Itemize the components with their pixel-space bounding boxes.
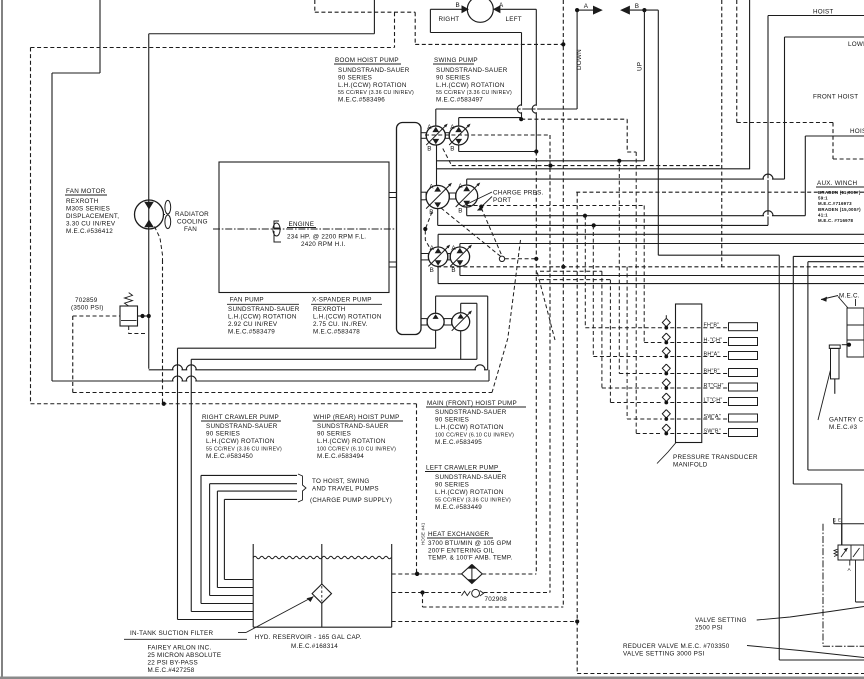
gantry cylinder body	[831, 348, 840, 379]
transducer connector box 6	[729, 398, 758, 406]
wire dashed transducer row 4	[619, 373, 662, 375]
svg-text:234 HP. @ 2200 RPM F.L.: 234 HP. @ 2200 RPM F.L.	[287, 234, 366, 241]
wire hoist vertical x768	[767, 16, 769, 226]
svg-text:25 MICRON ABSOLUTE: 25 MICRON ABSOLUTE	[148, 652, 222, 659]
wire dashed transducer row 2	[644, 342, 662, 344]
pilot valve inner 1	[847, 324, 864, 326]
border bottom scan edge	[0, 677, 864, 679]
svg-text:22 PSI BY-PASS: 22 PSI BY-PASS	[148, 659, 198, 666]
engine crank symbol 2	[274, 231, 281, 242]
wire dashed box y205	[467, 205, 644, 207]
pump main hoist P3 variable arrow	[426, 184, 451, 209]
svg-text:M.E.C.#3: M.E.C.#3	[829, 424, 857, 431]
wire dashed vertical x722	[721, 0, 723, 267]
transducer connector box 8	[729, 429, 758, 437]
wire bundle bottom 5	[217, 587, 253, 589]
hop x521 y109	[517, 105, 521, 113]
wire bundle bottom 1	[178, 619, 254, 621]
svg-text:A: A	[499, 2, 504, 9]
wire fan motor case drain curve	[155, 227, 163, 261]
pressure transducer manifold body	[676, 304, 702, 443]
stub whip B	[466, 207, 468, 216]
pump swing P2 variable arrow	[449, 125, 469, 145]
pump swing P2 port-A arrow	[455, 127, 462, 132]
svg-text:A: A	[427, 124, 432, 131]
svg-text:B: B	[427, 145, 431, 152]
wire dashed y192	[576, 191, 864, 193]
wire lcrawler B line y275	[460, 275, 864, 277]
svg-text:UP: UP	[637, 62, 644, 71]
wire xspander A up	[460, 303, 462, 313]
transducer node 5	[664, 386, 668, 390]
wire dashed bottom y673	[577, 673, 864, 675]
pump main hoist P3 port-A arrow	[434, 186, 441, 191]
arrow B left	[620, 6, 630, 15]
wire lower vertical x784	[784, 37, 786, 179]
svg-text:A: A	[430, 245, 435, 252]
underline engine	[287, 227, 316, 229]
hop y370 x480	[475, 365, 485, 370]
wire dashed drain chain	[425, 212, 432, 250]
svg-text:BOOM HOIST PUMP: BOOM HOIST PUMP	[335, 57, 399, 64]
wire dashed transducer to box 5	[670, 387, 728, 389]
pump swing P2 variable arrowhead	[467, 124, 471, 128]
wire dashed transducer row 3	[593, 356, 662, 358]
svg-text:BRADEN (15,000#): BRADEN (15,000#)	[818, 207, 861, 212]
svg-text:90 SERIES: 90 SERIES	[206, 431, 240, 438]
hop y381 x191 mask	[187, 380, 195, 382]
svg-text:L.H.(CCW) ROTATION: L.H.(CCW) ROTATION	[338, 82, 407, 89]
leader reducer valve	[747, 646, 864, 658]
leader charge arrowhead	[478, 206, 483, 211]
wire dashed drain diag p1	[443, 149, 452, 166]
wire dashed transducer vertical 7	[626, 267, 628, 419]
svg-text:702859: 702859	[75, 297, 98, 304]
wire bundle bottom 3	[201, 603, 253, 605]
transducer node 3	[664, 355, 668, 359]
wire dashed hx right	[482, 573, 536, 575]
pump drive gearbox	[397, 123, 422, 335]
svg-text:M.E.C.#583494: M.E.C.#583494	[317, 453, 364, 460]
junction pilot valve	[847, 343, 851, 347]
pump boom hoist P1 variable arrow	[426, 125, 446, 145]
junction y161 x619	[617, 159, 621, 163]
wire top vertical x374	[373, 0, 375, 34]
wire dashed top horizontal y47	[31, 47, 395, 49]
svg-text:REXROTH: REXROTH	[313, 306, 346, 313]
stub swingpump A	[458, 118, 460, 127]
check valve arrowhead	[480, 591, 484, 596]
transducer check diamond 6	[662, 393, 670, 401]
valve box outer left	[792, 256, 794, 484]
svg-text:LT"CH": LT"CH"	[704, 398, 723, 404]
wire dashed vertical x737	[736, 0, 738, 123]
valve box outer bottom	[793, 483, 841, 485]
svg-text:SUNDSTRAND-SAUER: SUNDSTRAND-SAUER	[228, 306, 300, 313]
svg-text:PRESSURE TRANSDUCER: PRESSURE TRANSDUCER	[673, 454, 758, 461]
wire dashed fan drain vertical x162	[162, 260, 164, 404]
wire dashed box y135	[425, 134, 550, 136]
wire bottom exit y660	[779, 659, 864, 661]
stub rcrawler A	[437, 234, 439, 247]
underline aux winch	[816, 186, 864, 188]
svg-text:90 SERIES: 90 SERIES	[435, 482, 469, 489]
engine block box	[219, 162, 389, 293]
wire bundle top 4	[224, 498, 297, 500]
svg-text:A: A	[429, 184, 434, 191]
svg-text:TO HOIST, SWING: TO HOIST, SWING	[312, 478, 370, 485]
leader mec arrowhead	[821, 297, 827, 302]
svg-text:2500 PSI: 2500 PSI	[695, 625, 723, 632]
pilot valve block	[847, 308, 864, 357]
filter suction diamond	[312, 584, 331, 603]
pump boom hoist P1 port-B arrow	[432, 139, 439, 144]
leader charge 1	[462, 192, 492, 207]
svg-text:3.30 CU IN/REV: 3.30 CU IN/REV	[66, 221, 116, 228]
transducer connector box 7	[729, 414, 758, 422]
wire left border vertical	[1, 0, 3, 679]
pump swing P2	[449, 126, 468, 145]
gearbox stub pair1	[421, 133, 426, 139]
junction relief b	[147, 314, 151, 318]
svg-text:M.E.C.#583478: M.E.C.#583478	[313, 329, 360, 336]
svg-text:M.E.C.#583450: M.E.C.#583450	[206, 453, 253, 460]
shaft stub pair3	[448, 254, 450, 260]
wire dashed y122	[737, 122, 833, 124]
fan propeller blade top	[165, 200, 171, 214]
svg-text:59:1: 59:1	[818, 196, 828, 201]
pump fan P7	[427, 313, 444, 330]
transducer connector box 3	[729, 352, 758, 360]
wire hoist2 exit y136	[805, 135, 864, 137]
wire dashed drain h y259	[505, 258, 537, 260]
svg-text:REDUCER VALVE M.E.C. #703350: REDUCER VALVE M.E.C. #703350	[623, 643, 730, 650]
svg-text:M30S SERIES: M30S SERIES	[66, 206, 110, 213]
svg-text:VALVE SETTING 3000 PSI: VALVE SETTING 3000 PSI	[623, 651, 705, 658]
pump right crawler P5 variable arrow	[428, 246, 449, 267]
fan shaft	[164, 214, 166, 216]
wire hoist arrow A line	[577, 9, 593, 11]
hop x536 y109	[532, 105, 536, 113]
svg-text:100 CC/REV (6.10 CU IN/REV): 100 CC/REV (6.10 CU IN/REV)	[317, 446, 396, 452]
pump x-spander P8 variable arrow	[452, 312, 471, 331]
gearbox stub pair2	[421, 192, 426, 200]
underline heat exchanger	[427, 537, 493, 539]
wire dashed x422	[422, 593, 424, 608]
pump main hoist P3	[426, 185, 449, 208]
underline left crawler	[425, 471, 501, 473]
wire dashed drain y166	[452, 165, 722, 167]
wire dashed transducer row 8	[636, 433, 662, 435]
junction drain x425	[423, 227, 427, 231]
solenoid stub A	[849, 560, 851, 566]
underline whip	[313, 420, 404, 422]
check valve marks	[462, 591, 471, 595]
wire dashed left vertical x30	[30, 48, 32, 404]
junction y166 x550	[548, 164, 552, 168]
gearbox stub pair3	[421, 254, 428, 260]
svg-text:200'F ENTERING OIL: 200'F ENTERING OIL	[428, 547, 494, 554]
gearbox stub pair4	[421, 319, 427, 325]
underline x-spander	[311, 303, 382, 305]
svg-text:2.92 CU IN/REV: 2.92 CU IN/REV	[228, 321, 278, 328]
pump swing P2 port-B arrow	[455, 139, 462, 144]
wire dashed top vertical x315	[314, 0, 316, 12]
transducer check diamond 3	[662, 347, 670, 355]
svg-text:FAIREY ARLON INC.: FAIREY ARLON INC.	[148, 645, 212, 652]
wire bundle bottom 2	[191, 611, 253, 613]
svg-text:SUNDSTRAND-SAUER: SUNDSTRAND-SAUER	[206, 423, 278, 430]
wire bundle bottom 6	[224, 579, 253, 581]
reservoir right wall	[391, 544, 393, 627]
hop y370 x191	[186, 365, 196, 370]
wire swing loop vertical x521	[521, 33, 523, 120]
relief valve 702859 body	[120, 306, 138, 326]
wire swing motor left	[430, 8, 461, 10]
solenoid valve arrow	[841, 548, 848, 557]
transducer connector box 5	[729, 383, 758, 391]
hop y216 x768 mask	[764, 215, 772, 217]
svg-text:M.E.C.#536412: M.E.C.#536412	[66, 228, 113, 235]
svg-text:M.E.C. #716978: M.E.C. #716978	[818, 218, 854, 223]
wire boom B line y161	[437, 160, 645, 162]
svg-text:B: B	[451, 267, 455, 274]
hop y370 x480 mask	[476, 369, 484, 371]
junction dashed y44 x563	[561, 42, 565, 46]
motor swing M1	[467, 0, 493, 22]
wire swing motor right	[500, 8, 536, 10]
pump x-spander P8	[452, 313, 470, 331]
svg-text:RIGHT: RIGHT	[439, 16, 460, 23]
svg-text:L.H.(CCW) ROTATION: L.H.(CCW) ROTATION	[313, 314, 382, 321]
svg-text:100 CC/REV (6.10 CU IN/REV): 100 CC/REV (6.10 CU IN/REV)	[435, 432, 514, 438]
transducer node 6	[664, 401, 668, 405]
svg-text:B: B	[458, 207, 462, 214]
svg-text:M.E.C.#583479: M.E.C.#583479	[228, 329, 275, 336]
arrow swing port A	[493, 5, 501, 13]
svg-text:SUNDSTRAND-SAUER: SUNDSTRAND-SAUER	[435, 474, 507, 481]
transducer top tick	[665, 315, 667, 318]
pump whip hoist P4	[456, 185, 478, 207]
junction y267 x563	[561, 265, 565, 269]
wire bundle top 2	[210, 483, 297, 485]
wire fanpump B down	[435, 330, 437, 348]
wire mainhoist B line y225	[438, 224, 768, 226]
transducer connector box 4	[729, 369, 758, 377]
wire left vertical x52	[51, 73, 53, 381]
wire fan-return vertical x149	[148, 34, 150, 369]
wire dashed transducer vertical 2	[643, 206, 645, 343]
reservoir oil level wavy line	[253, 556, 391, 559]
svg-text:702908: 702908	[485, 596, 508, 603]
wire top-left vertical x100	[99, 0, 101, 73]
gantry cylinder rod	[834, 379, 836, 394]
pump x-spander P8 variable arrowhead	[468, 311, 472, 315]
leader filter tail	[238, 632, 246, 634]
wire swing return vertical x536	[535, 9, 537, 151]
wire UP vertical x644	[643, 10, 645, 161]
wire dashed top horizontal y12	[315, 11, 415, 13]
pump whip hoist P4 variable arrowhead	[476, 182, 480, 186]
junction y404 x164	[162, 402, 166, 406]
wire y370 line	[149, 369, 488, 371]
stub lcrawler A	[459, 244, 461, 248]
svg-text:X-SPANDER PUMP: X-SPANDER PUMP	[312, 297, 372, 304]
wire y348 line	[178, 347, 436, 349]
svg-text:FH"B": FH"B"	[704, 323, 720, 329]
relief valve spring	[125, 293, 133, 306]
svg-text:ENGINE: ENGINE	[289, 221, 315, 228]
svg-text:A: A	[458, 183, 463, 190]
solenoid valve body	[838, 545, 864, 560]
wire dashed vertical x394	[394, 12, 396, 47]
valve box inner bottom	[808, 469, 864, 471]
wire swing loop bottom y32	[430, 32, 521, 34]
wire hoist2 vertical x805	[804, 136, 806, 216]
svg-text:2420 RPM H.I.: 2420 RPM H.I.	[301, 241, 346, 248]
hop x536 y109 mask	[535, 106, 537, 112]
wire hoist arrow B line	[630, 9, 658, 11]
wire dashed relief left	[73, 315, 120, 317]
wire rcrawler A line y234	[438, 233, 864, 235]
wire dashed exit y159	[833, 158, 864, 160]
wire y524	[834, 523, 864, 525]
wire x834 short	[833, 518, 835, 524]
svg-text:C E: C E	[833, 518, 841, 523]
svg-text:SUNDSTRAND-SAUER: SUNDSTRAND-SAUER	[317, 423, 389, 430]
pump whip hoist P4 port-A arrow	[463, 186, 470, 191]
svg-text:90 SERIES: 90 SERIES	[317, 431, 351, 438]
wire boom-to-mainhoist vertical	[436, 145, 438, 186]
pump main hoist P3 port-B arrow	[434, 202, 441, 207]
svg-text:TEMP. & 100'F AMB. TEMP.: TEMP. & 100'F AMB. TEMP.	[428, 555, 513, 562]
wire dashed transducer vertical 8	[635, 152, 637, 434]
underline fan motor	[65, 194, 107, 196]
wire top horizontal y34	[149, 33, 375, 35]
wire dashed transducer vertical 4	[618, 161, 620, 374]
wire swing loop left vertical	[429, 9, 431, 32]
wire fanpump loop top	[436, 295, 488, 297]
heat exchanger top arrow	[467, 564, 476, 568]
reservoir bottom	[253, 626, 392, 628]
wire dashed vertical x72	[72, 316, 74, 393]
svg-text:(CHARGE PUMP SUPPLY): (CHARGE PUMP SUPPLY)	[310, 497, 392, 504]
svg-text:HOSE #41: HOSE #41	[421, 522, 426, 545]
hop y370 x178	[173, 365, 183, 370]
svg-text:L.H.(CCW) ROTATION: L.H.(CCW) ROTATION	[435, 424, 504, 431]
transducer node 7	[664, 417, 668, 421]
transducer check diamond 5	[662, 379, 670, 387]
reservoir suction pipe bottom	[321, 603, 323, 627]
svg-text:M.E.C.#716973: M.E.C.#716973	[818, 201, 852, 206]
wire bundle vertical 1	[177, 348, 179, 619]
junction y151 x536	[534, 149, 538, 153]
junction x416 y574	[415, 572, 419, 576]
valve box inner top	[808, 261, 864, 263]
shaft stub pair2	[449, 193, 455, 199]
wire dashed transducer to box 8	[670, 433, 728, 435]
pump boom hoist P1	[426, 126, 445, 145]
leader transducer	[657, 443, 676, 464]
stub rcrawler B	[437, 266, 439, 283]
solenoid valve divider	[850, 545, 852, 560]
underline fan pump	[227, 303, 299, 305]
motor fan M2	[135, 200, 164, 229]
junction down-line top	[575, 8, 579, 12]
wire dashed transducer row 5	[602, 387, 662, 389]
wire bundle vertical 3	[200, 475, 202, 603]
pilot valve line	[842, 344, 849, 346]
solenoid right drop	[855, 560, 857, 602]
svg-text:L.H.(CCW) ROTATION: L.H.(CCW) ROTATION	[206, 438, 275, 445]
svg-text:SUNDSTRAND-SAUER: SUNDSTRAND-SAUER	[338, 67, 410, 74]
wire y359 line	[191, 358, 477, 360]
brace charge supply	[298, 474, 306, 502]
hop y370 x178 mask	[174, 369, 182, 371]
svg-text:HOIST: HOIST	[850, 128, 864, 135]
junction hx left	[415, 572, 419, 576]
pump right crawler P5 variable arrowhead	[446, 245, 450, 249]
wire dashed drain diag long	[492, 240, 521, 393]
wire fanpump A up	[435, 296, 437, 313]
pump x-spander P8 port-A arrow	[457, 314, 463, 319]
solenoid spring	[834, 549, 838, 557]
shaft stub pair1	[445, 133, 449, 139]
hop y179 x768 mask	[764, 178, 772, 180]
shaft stub pair4	[444, 319, 452, 325]
pump left crawler P6 variable arrow	[450, 246, 471, 267]
svg-text:MAIN (FRONT) HOIST PUMP: MAIN (FRONT) HOIST PUMP	[427, 400, 517, 407]
underline main hoist	[426, 406, 526, 408]
leader filter diag	[246, 597, 314, 633]
wire bundle bottom 4	[210, 595, 254, 597]
svg-text:FAN: FAN	[184, 226, 197, 233]
junction y216 x585	[583, 214, 587, 218]
wire dashed vertical x536 down	[535, 152, 537, 575]
wire xspander loop right vertical	[476, 303, 478, 359]
wire dashed vertical x577 down	[576, 192, 578, 673]
solenoid valve arrow2	[853, 548, 860, 557]
leader gantry	[818, 370, 831, 420]
svg-text:MANIFOLD: MANIFOLD	[673, 462, 708, 469]
arrow A right	[593, 6, 603, 15]
svg-text:L.H.(CCW) ROTATION: L.H.(CCW) ROTATION	[228, 314, 297, 321]
wire y255 line	[658, 254, 779, 256]
wire dashed horizontal y44	[415, 43, 563, 45]
svg-text:FRONT HOIST: FRONT HOIST	[813, 94, 858, 101]
wire fanpump loop right vertical	[487, 296, 489, 370]
stub whip A	[466, 179, 468, 185]
junction up-line top	[642, 8, 646, 12]
wire y370-y381 link	[488, 370, 490, 381]
wire dashed transducer vertical 5	[601, 271, 603, 388]
wire dashed vertical x627 top	[626, 119, 628, 152]
svg-text:LEFT CRAWLER PUMP: LEFT CRAWLER PUMP	[426, 465, 498, 472]
pump right crawler P5	[428, 247, 447, 266]
wire dashed transducer row 6	[610, 402, 662, 404]
svg-text:RIGHT CRAWLER PUMP: RIGHT CRAWLER PUMP	[202, 414, 279, 421]
leader mec 2	[838, 297, 848, 309]
leader charge 2	[478, 197, 493, 211]
svg-text:GANTRY C: GANTRY C	[829, 417, 864, 424]
wire bundle vertical 2	[190, 359, 192, 611]
engine-gearbox stub lower	[389, 262, 397, 267]
pump left crawler P6 port-A arrow	[457, 248, 464, 253]
gantry cylinder cap	[829, 345, 840, 348]
wire dashed vertical x550	[549, 135, 551, 593]
wire dashed y119	[521, 118, 627, 120]
svg-text:FAN MOTOR: FAN MOTOR	[66, 188, 106, 195]
